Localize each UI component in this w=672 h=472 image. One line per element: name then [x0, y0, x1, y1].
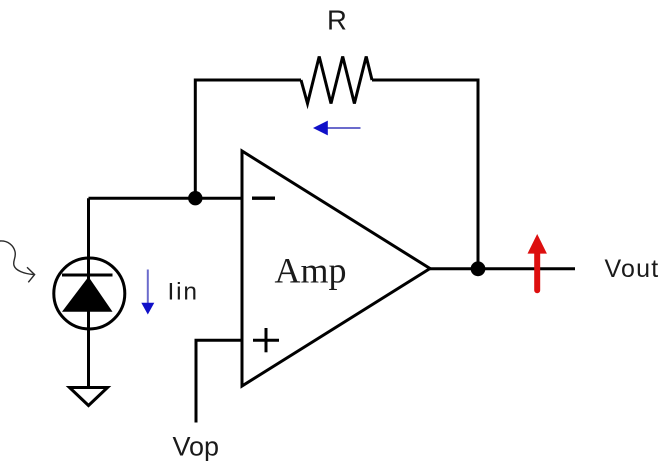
wire inverting input [89, 197, 243, 200]
svg-text:Iin: Iin [168, 278, 199, 305]
op-amp U1 [242, 151, 430, 386]
node B (output junction) [471, 261, 486, 276]
svg-text:Vout: Vout [605, 255, 660, 283]
feedback current arrow (blue, pointing left) [313, 121, 361, 136]
node A (inverting input junction) [188, 191, 202, 205]
resistor R [301, 57, 372, 104]
wire output [430, 267, 575, 270]
wire photodiode vertical [87, 198, 90, 388]
op-amp plus symbol [253, 328, 279, 352]
wire non-inverting input [196, 340, 242, 422]
svg-text:Vop: Vop [173, 432, 220, 462]
wire feedback right segment [372, 80, 478, 269]
svg-text:R: R [327, 4, 347, 35]
svg-text:Amp: Amp [275, 250, 347, 290]
voltage arrow Vout (red, pointing up) [528, 234, 547, 290]
wire feedback left segment [195, 80, 301, 198]
ground [70, 388, 108, 406]
light arrow (squiggle) [0, 241, 35, 282]
photodiode D1 [54, 258, 125, 329]
op-amp minus symbol [252, 196, 275, 199]
current arrow Iin (blue, pointing down) [141, 270, 154, 315]
